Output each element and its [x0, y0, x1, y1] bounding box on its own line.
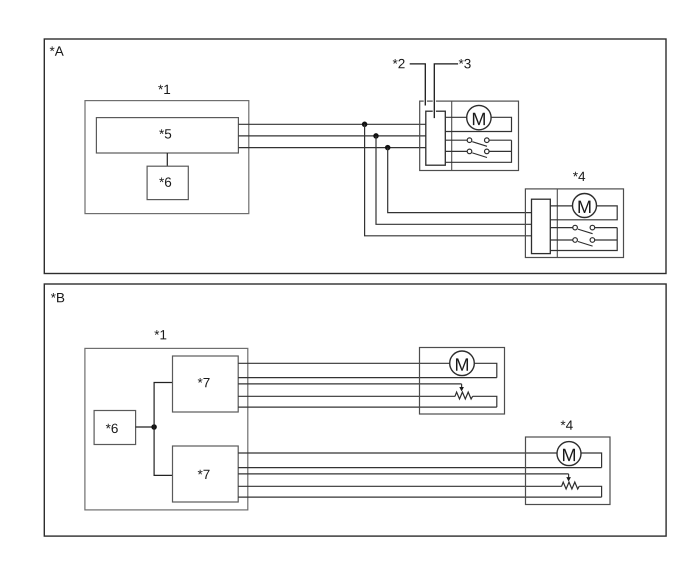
block *5: [96, 118, 238, 153]
ECU box *1 (section A): [85, 101, 249, 214]
actuator assembly box *4 (section A): [525, 189, 623, 258]
junction node dot 3: [385, 145, 391, 151]
label *2: [393, 59, 405, 68]
junction node dot 1: [362, 122, 368, 128]
switch return bus (unit *4 A): [550, 228, 617, 251]
label *6 (section A): [159, 177, 171, 187]
block *7 (bottom): [173, 446, 239, 502]
connector *3: [426, 111, 446, 165]
wire B1: *7 top to motor: [238, 362, 450, 364]
actuator box (top unit, section B): [420, 348, 505, 415]
pin wire 3 (to switch 1): [445, 139, 467, 141]
label *B: [51, 293, 64, 302]
label *3: [459, 59, 471, 69]
block *7 (top): [173, 356, 239, 412]
switch SW1 (unit *4 A): [573, 225, 617, 233]
switch SW1 (unit *2): [467, 138, 511, 146]
wiper arrow (top unit B): [459, 384, 464, 392]
label *7 (bottom): [198, 470, 210, 479]
motor M (unit *2): [467, 105, 491, 129]
resistor loop wire (unit *4 B): [579, 486, 601, 497]
pin wire 3 (to switch 1, unit *4 A): [550, 227, 572, 229]
wire 2: *5 to connector *3 (middle): [238, 135, 425, 137]
wire: dot1 to *4 bottom input: [365, 124, 532, 236]
junction node dot 2: [373, 133, 379, 139]
label *4 (section B): [561, 421, 573, 430]
potentiometer resistor (top unit B): [455, 392, 473, 399]
actuator box *4 (section B): [526, 437, 611, 505]
wire 1: *5 to connector *3 (top): [238, 123, 425, 125]
resistor loop wire (top unit B): [473, 396, 497, 407]
riser wire node to *7 top and *7 bottom (section B): [154, 383, 172, 476]
leader *2: [410, 64, 426, 106]
pin wire 1 (to motor): [445, 116, 466, 118]
wire B6: *7 bottom to motor (*4 B): [238, 452, 557, 454]
motor loop wire (unit *4 B): [581, 453, 602, 468]
wiper arrow (unit *4 B): [566, 474, 571, 482]
block *6 (section B): [94, 411, 136, 445]
wire B8: wiper (*4 B): [238, 473, 568, 475]
connector (unit *4 A): [532, 199, 551, 253]
motor M (top unit B): [450, 351, 475, 376]
potentiometer resistor (unit *4 B): [562, 482, 580, 489]
wire B2: motor return (top unit): [238, 377, 497, 379]
pin wire 1 (to motor, unit *4 A): [550, 205, 572, 207]
wire B3: wiper (top unit): [238, 383, 461, 385]
wire B9: resistor end (*4 B): [238, 485, 562, 487]
leader *3: [434, 64, 458, 118]
divider (actuator *2 unit): [451, 101, 453, 170]
motor M (unit *4 A): [573, 194, 597, 218]
wire: dot3 to *4 top input: [388, 148, 532, 213]
wire *6 to node: [136, 426, 155, 428]
label *A: [50, 46, 64, 55]
pin wire 4 (to switch 2): [445, 150, 467, 152]
motor loop wire (unit *2): [445, 117, 511, 131]
label *5: [159, 129, 171, 138]
wire 3: *5 to connector *3 (bottom): [238, 147, 425, 149]
block *6 (section A): [147, 166, 188, 199]
label *1 (section B): [154, 330, 166, 339]
ECU box *1 (section B): [85, 348, 248, 510]
actuator assembly box (*2/*3 unit): [420, 101, 519, 170]
label *1 (section A): [158, 85, 170, 94]
label *6 (section B): [106, 424, 118, 434]
frame A: [44, 39, 666, 274]
wire B4: resistor end (top unit): [238, 395, 455, 397]
wire B5: resistor return (top unit): [238, 406, 497, 408]
wire: dot2 to *4 middle input: [376, 136, 532, 224]
label *4 (section A): [573, 172, 585, 181]
divider (unit *4 A): [556, 189, 558, 258]
wire B10: resistor return (*4 B): [238, 496, 601, 498]
node dot (section B): [151, 424, 157, 430]
motor M (unit *4 B): [557, 442, 581, 466]
switch return bus (unit *2): [445, 140, 511, 162]
switch SW2 (unit *2): [467, 149, 511, 157]
wire B7: motor return (*4 B): [238, 467, 601, 469]
motor loop wire (top unit B): [474, 363, 497, 377]
motor loop wire (unit *4 A): [550, 206, 617, 220]
wire *5 to *6: [166, 153, 168, 166]
frame B: [44, 284, 666, 536]
switch SW2 (unit *4 A): [573, 238, 617, 246]
label *7 (top): [198, 378, 210, 387]
pin wire 4 (to switch 2, unit *4 A): [550, 239, 572, 241]
